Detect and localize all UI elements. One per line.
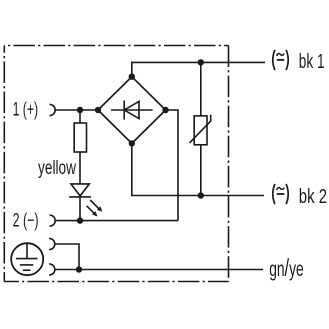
wire LED to pin2 line [79, 197, 81, 221]
varistor diagonal stroke [190, 115, 211, 143]
bk1 ac bar [277, 59, 285, 61]
node: bridge top vertex [129, 74, 135, 80]
PE contact upper (socket arc) [49, 238, 55, 249]
bk2 ac bar [277, 193, 285, 195]
wire varistor upper lead [200, 62, 202, 116]
device outline right [228, 46, 230, 282]
bk2 ac tilde [277, 188, 285, 191]
PE contact lower (socket arc) [49, 264, 55, 275]
node: PE junction [76, 266, 82, 272]
bk2 ac right paren [286, 184, 288, 204]
LED cathode bar [69, 196, 91, 198]
PE ground vertical stroke [26, 244, 28, 259]
wire PE upper contact to junction [55, 244, 79, 270]
wire varistor lower lead [200, 145, 202, 196]
LED light arrow 2 [87, 206, 95, 214]
LED light arrow 1 [90, 200, 99, 209]
bridge diode triangle [124, 101, 139, 118]
node: bridge left vertex [95, 107, 101, 113]
varistor body [194, 116, 207, 145]
wire bridge top to bk1 line [132, 62, 265, 76]
device outline bottom [4, 281, 228, 283]
node: bk2/varistor junction [198, 192, 204, 198]
pin 1 contact (socket arc) [50, 104, 56, 115]
svg-text:1 (+): 1 (+) [13, 99, 38, 120]
node: bridge bottom vertex [129, 140, 135, 146]
resistor (current limiting) [74, 123, 86, 152]
wire bridge right vertex to pin2 line [166, 110, 178, 221]
bridge inner lead line [111, 109, 153, 111]
wire resistor branch upper [79, 110, 81, 123]
svg-text:bk 2: bk 2 [299, 186, 327, 208]
PE ground long bar [16, 258, 38, 260]
wire pin1 to bridge [55, 109, 98, 111]
wire pin2 line [55, 220, 178, 222]
bridge diode cathode bar [123, 100, 125, 119]
bridge rectifier diamond [98, 77, 166, 144]
bk1 ac tilde [277, 53, 285, 56]
device outline top (dash-dot enclosure) [4, 45, 228, 47]
label (ac approx) for bk1: left paren [273, 50, 288, 70]
svg-text:yellow: yellow [38, 158, 76, 179]
PE ground middle bar [20, 264, 33, 266]
device outline left [3, 46, 5, 282]
node: pin2/LED junction [77, 217, 83, 223]
svg-text:gn/ye: gn/ye [269, 254, 304, 282]
svg-text:bk 1: bk 1 [299, 51, 325, 73]
LED arrow head 2 [92, 211, 97, 216]
bk1 ac right paren [286, 50, 288, 70]
LED (yellow) triangle [71, 184, 89, 196]
PE ground short bar [23, 269, 31, 271]
wire resistor to LED [79, 152, 81, 184]
LED arrow head 1 [97, 206, 102, 211]
wire bridge bottom to bk2 line [132, 143, 264, 195]
pin 2 contact (socket arc) [50, 215, 56, 226]
svg-text:2 (−): 2 (−) [13, 211, 39, 232]
PE ground circle [11, 243, 43, 275]
wire PE lower contact / gn-ye line [55, 269, 263, 271]
label (ac approx) for bk2: left paren [273, 184, 288, 204]
node: bk1/varistor junction [198, 59, 204, 65]
node: pin1/resistor junction [77, 107, 83, 113]
node: bridge right vertex [162, 107, 168, 113]
